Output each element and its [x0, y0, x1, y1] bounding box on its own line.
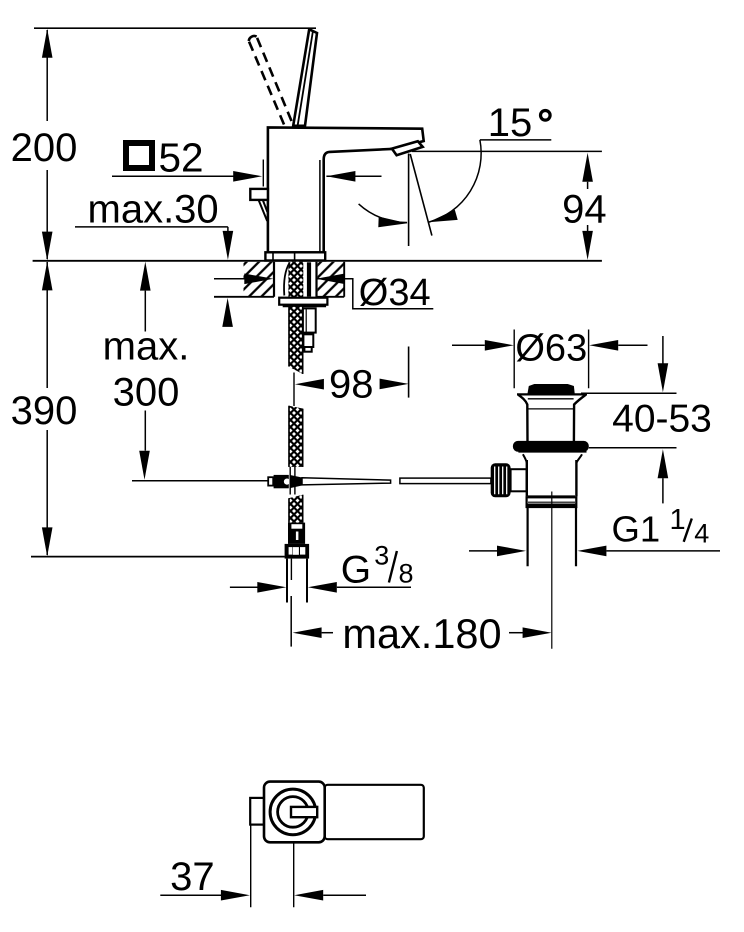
- pull-rod knob on faucet: [250, 189, 268, 200]
- water stream vertical reference: [408, 154, 410, 247]
- faucet body outline: [268, 127, 424, 252]
- mounting stud: [303, 308, 316, 332]
- 15deg arc right: [429, 140, 481, 222]
- dia63 extension ticks: [514, 330, 588, 389]
- svg-text:98: 98: [329, 363, 374, 407]
- svg-text:300: 300: [113, 371, 180, 415]
- counter hole left wall: [273, 262, 275, 297]
- dimension dia34 left arrow: [214, 278, 245, 280]
- drain flange top line: [517, 393, 587, 395]
- 15deg arc left: [359, 204, 408, 223]
- lever handle dashed alternate position: [249, 41, 284, 125]
- max.30 arrow up to counter bottom: [222, 298, 233, 327]
- mounting washer: [279, 298, 327, 305]
- dimension max.180 left tick: [290, 596, 292, 647]
- top reference line: [34, 27, 316, 29]
- dimension 52 line left: [112, 175, 236, 177]
- top view inner circle: [278, 797, 309, 828]
- faucet base plate: [265, 252, 325, 260]
- max.180 right arrow: [509, 632, 524, 634]
- dimension dia63: [452, 344, 485, 346]
- svg-text:37: 37: [170, 855, 215, 899]
- lever dashed cap: [249, 36, 257, 41]
- svg-text:G: G: [341, 548, 371, 591]
- pop-up rod right segment: [400, 478, 491, 484]
- counter cross-section hatch left: [244, 262, 275, 297]
- dimension 52 arrow left-pointing: [326, 171, 355, 182]
- dimension 37 arrows: [160, 894, 221, 896]
- aerator at spout outlet: [392, 141, 423, 155]
- svg-text:3: 3: [374, 541, 389, 571]
- max.30 arrow down to counter top: [223, 231, 234, 260]
- dimension 40-53 top tick: [581, 392, 677, 394]
- dimension 52 arrow right-pointing: [233, 171, 262, 182]
- top view outer circle: [270, 789, 316, 835]
- drain collar: [528, 495, 575, 497]
- washer lower bar: [283, 305, 326, 307]
- 40-53 top arrow: [662, 336, 664, 364]
- drain trumpet neck: [518, 395, 527, 442]
- 15deg leader line: [480, 139, 551, 141]
- svg-text:max.: max.: [103, 324, 190, 368]
- drain body sides: [527, 460, 577, 496]
- top view spout rectangle: [325, 785, 424, 839]
- rod connector dark block: [274, 475, 289, 488]
- counter hole right wall: [315, 262, 317, 297]
- dimension 40-53 bottom tick: [589, 447, 677, 449]
- dimension 94 line: [587, 182, 589, 232]
- dimension 390 line: [46, 262, 48, 555]
- lever handle solid: [293, 29, 317, 126]
- dimension 390 arrow up: [42, 261, 53, 290]
- braided hose segment 2: [288, 406, 303, 467]
- dimension dia34 right arrow: [316, 274, 345, 285]
- knob stem: [511, 469, 527, 491]
- bottom reference line (390 end): [31, 556, 285, 558]
- braided hose segment 3: [288, 495, 303, 523]
- max.180 left arrow: [293, 627, 322, 638]
- horizontal pop-up rod left line: [132, 480, 268, 482]
- svg-text:94: 94: [562, 188, 607, 232]
- dimension 94 arrow down: [582, 231, 593, 260]
- pull rod vertical in gap: [290, 467, 295, 495]
- top view bar: [291, 807, 317, 817]
- pull-rod knob linkage: [259, 200, 268, 221]
- dimension 52 extension line: [262, 160, 264, 187]
- dimension 200 arrow up: [42, 29, 53, 58]
- top view faucet lever tab: [250, 798, 264, 825]
- counter top surface line: [33, 260, 602, 262]
- max.300 arrow up: [140, 262, 151, 291]
- dimension 98 right tick: [408, 347, 410, 398]
- faucet inner spout line: [319, 160, 321, 252]
- counter bottom surface line: [214, 296, 344, 298]
- dimension 98 arrows: [295, 379, 324, 390]
- top view square body: [264, 782, 325, 843]
- knurled knob: [491, 463, 511, 497]
- square symbol of square-52 label: [126, 143, 152, 168]
- svg-text:max.180: max.180: [342, 610, 501, 657]
- counter right edge: [343, 262, 345, 297]
- hose tube below nut: [287, 559, 307, 603]
- braided hose segment 1: [288, 307, 303, 374]
- hose end ferrule: [288, 523, 305, 544]
- svg-text:Ø34: Ø34: [359, 272, 431, 314]
- svg-text:40-53: 40-53: [612, 397, 712, 440]
- svg-text:G1: G1: [612, 509, 661, 550]
- svg-text:1: 1: [670, 504, 686, 536]
- drain centerline: [551, 492, 553, 649]
- dimension 94 top tick: [412, 150, 602, 152]
- dimension 94 arrow up: [582, 153, 593, 182]
- dimension 200 arrow down: [42, 232, 53, 261]
- svg-text:Ø63: Ø63: [515, 327, 587, 369]
- dimension G3/8 arrows: [230, 586, 258, 588]
- drain flange lip: [518, 451, 586, 453]
- svg-text:4: 4: [694, 519, 709, 549]
- dimension 52 line right: [326, 175, 381, 177]
- hose centerline gap 1: [293, 373, 295, 407]
- threaded stud strip in hole: [307, 262, 311, 296]
- 40-53 bottom arrow: [658, 449, 669, 478]
- drain plug cap: [528, 384, 575, 394]
- dimension 200 line: [46, 30, 48, 259]
- dimension G1 1/4 arrows: [469, 550, 497, 552]
- drain gasket ring: [513, 441, 589, 452]
- max.300 dimension line: [144, 291, 146, 451]
- svg-text:200: 200: [11, 126, 78, 170]
- counter cross-section hatch right: [318, 262, 345, 297]
- pop-up rod tapered segment: [302, 478, 391, 485]
- water stream 15deg line: [410, 154, 432, 236]
- rod connector wedge: [290, 475, 303, 488]
- lever handle inner line: [298, 31, 313, 126]
- hose curve in hole: [284, 262, 290, 295]
- svg-text:8: 8: [399, 558, 414, 588]
- hose end nut G3/8: [285, 544, 310, 559]
- mounting nut: [303, 334, 313, 347]
- dimension 390 arrow down: [42, 527, 53, 556]
- svg-text:15: 15: [488, 101, 533, 145]
- max.300 arrow down: [139, 451, 150, 480]
- drain pipe: [528, 507, 576, 566]
- max.30 leader line: [75, 227, 228, 233]
- 37 extension lines: [251, 825, 294, 908]
- braided hose in counter hole: [288, 262, 303, 297]
- hose centerline below nut: [290, 559, 292, 580]
- dia34 leader bracket: [316, 279, 433, 309]
- rod connector small block: [268, 477, 273, 485]
- svg-text:390: 390: [11, 389, 78, 433]
- svg-text:max.30: max.30: [88, 188, 219, 232]
- svg-text:52: 52: [159, 135, 204, 181]
